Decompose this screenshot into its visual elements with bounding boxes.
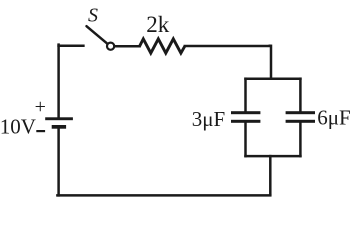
wire bottom [57, 194, 270, 197]
svg-text:+: + [35, 96, 46, 118]
label battery minus [36, 130, 45, 132]
battery V1 positive plate (long) [45, 117, 73, 120]
wire left branch upper [244, 79, 247, 112]
wire right branch upper [299, 79, 302, 112]
capacitor C2 6uF bottom plate [286, 120, 315, 123]
switch S lever [87, 26, 108, 43]
svg-text:10V: 10V [0, 115, 36, 139]
switch S contact circle [107, 43, 114, 50]
wire capacitor-bank bottom [246, 155, 301, 158]
capacitor C1 3uF bottom plate [231, 120, 260, 123]
svg-text:2k: 2k [146, 12, 170, 37]
wire capacitor-bank top [246, 77, 301, 80]
wire right exit vertical [269, 156, 272, 194]
svg-text:3μF: 3μF [192, 107, 225, 131]
wire entering vertical [270, 46, 273, 78]
battery V1 negative plate (short) [52, 125, 66, 129]
wire left rail upper [57, 45, 60, 118]
resistor R 2k zigzag [140, 39, 185, 53]
wire switch to resistor [115, 45, 140, 48]
wire top from resistor to corner [185, 45, 270, 48]
wire right branch lower [299, 123, 302, 156]
capacitor C2 6uF top plate [286, 111, 315, 114]
svg-text:S: S [88, 5, 98, 27]
wire top-left horizontal [59, 45, 84, 48]
svg-text:6μF: 6μF [317, 105, 350, 129]
wire left rail lower [57, 128, 60, 195]
wire left branch lower [244, 123, 247, 156]
capacitor C1 3uF top plate [231, 111, 260, 114]
